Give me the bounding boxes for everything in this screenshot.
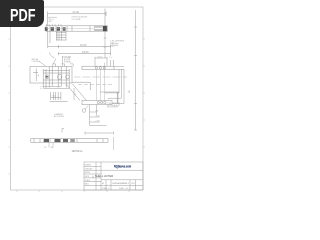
top overall dimension line — [48, 12, 107, 17]
bolt heads above bar — [47, 24, 62, 26]
svg-text:4 1/2: 4 1/2 — [98, 57, 103, 59]
svg-text:18.00: 18.00 — [82, 50, 89, 54]
top dimension extension left — [47, 16, 49, 27]
svg-text:SCREWS: SCREWS — [110, 45, 119, 47]
frame zone ticks right — [143, 39, 145, 147]
sheet frame — [11, 7, 144, 190]
note near badge — [48, 16, 57, 18]
svg-text:DWG02948JM-1: DWG02948JM-1 — [113, 183, 130, 185]
svg-text:1/2 C BORE: 1/2 C BORE — [72, 19, 81, 21]
arm center vertical — [103, 63, 105, 72]
left interior dim — [33, 69, 38, 82]
hole projection verticals — [96, 69, 104, 100]
plan view upper rectangle — [30, 67, 72, 84]
ladder extension from bar — [48, 31, 50, 46]
right hole extension below bar — [104, 31, 107, 58]
svg-text:15: 15 — [128, 91, 131, 94]
svg-text:15.00: 15.00 — [80, 43, 87, 47]
lower arm bar — [82, 101, 112, 105]
dims below bracket — [41, 86, 70, 88]
svg-text:DRAWN: DRAWN — [85, 164, 92, 167]
vertical dim in diagonal zone — [73, 88, 75, 100]
dim verticals below lower arm — [90, 105, 107, 126]
right nested dims — [105, 66, 124, 103]
overall vertical dimension — [134, 10, 137, 130]
svg-text:24.00: 24.00 — [73, 10, 80, 14]
svg-text:1 1/2: 1 1/2 — [96, 115, 100, 117]
bottom bar droplines — [49, 142, 53, 147]
stacked dimension ladder — [56, 32, 66, 41]
dark block 3 — [57, 27, 60, 31]
bracket horizontals — [43, 70, 69, 80]
bottom bar dark seg 3 — [63, 139, 68, 142]
svg-text:3/4: 3/4 — [51, 147, 53, 149]
svg-text:APPVD: APPVD — [85, 171, 91, 174]
svg-text:3 REQD: 3 REQD — [64, 61, 72, 63]
lower arm hole 1 — [97, 101, 99, 103]
step outline — [72, 82, 90, 90]
svg-text:SHEET 1 OF 1: SHEET 1 OF 1 — [119, 188, 130, 190]
leader arc lower-left — [50, 53, 55, 58]
diagonal edge 2 — [73, 84, 87, 101]
lower arm hole 2 — [100, 101, 102, 103]
frame zone ticks left — [9, 39, 11, 174]
svg-text:HD SCREWS: HD SCREWS — [107, 107, 119, 109]
svg-text:A3: A3 — [102, 182, 104, 185]
text: top dim value — [32, 10, 136, 190]
diagonal edge 1 — [66, 84, 80, 101]
right end gray section — [94, 26, 103, 31]
svg-text:2: 2 — [75, 94, 77, 96]
PDF badge — [0, 0, 44, 27]
bolt tabs above plan — [53, 64, 74, 67]
dark block 1 (nut section) — [45, 27, 48, 31]
small dim cluster below bracket — [50, 92, 68, 101]
arm top dimension — [95, 57, 114, 66]
verticals mid right — [116, 92, 119, 104]
dimension line 15.00 — [48, 45, 111, 48]
svg-text:5/8: 5/8 — [96, 110, 99, 112]
svg-text:SCALE: SCALE — [85, 179, 90, 182]
svg-text:1 1/2: 1 1/2 — [52, 95, 56, 97]
bottom bar dark seg 2 — [55, 139, 61, 142]
svg-text:SECTION A-A: SECTION A-A — [72, 149, 83, 153]
top view bar outline — [46, 26, 108, 31]
title block lower dividers — [101, 180, 143, 190]
svg-text:ALL EDGES: ALL EDGES — [54, 115, 65, 118]
dark block 4 — [63, 27, 66, 31]
frame zone ticks bottom — [17, 190, 129, 192]
top dimension extension right — [104, 9, 106, 27]
svg-text:1/2: 1/2 — [44, 147, 46, 149]
svg-text:DATE: DATE — [85, 175, 89, 178]
right extension for dims — [110, 45, 112, 55]
bottom bar dark seg 1 — [44, 139, 49, 142]
bracket circle 3 — [66, 75, 70, 79]
lower arm hole 3 — [104, 101, 106, 103]
bottom bar (section view) — [31, 139, 108, 143]
dashed hidden line — [78, 84, 112, 86]
title block outer — [84, 162, 143, 190]
bottom bar gray seg 4 — [70, 139, 75, 142]
arm hole 1 — [95, 67, 97, 69]
section arrow left — [62, 129, 64, 133]
arm hole 2 — [99, 67, 101, 69]
svg-text:REV: REV — [132, 183, 136, 185]
bar mid line — [46, 28, 94, 30]
bottom bar divisions — [34, 139, 103, 143]
right dim line — [100, 91, 119, 93]
right end dark block — [103, 26, 107, 31]
leader lines from notes — [39, 56, 62, 66]
bar internal divisions — [50, 26, 99, 31]
svg-text:NQSaves.com: NQSaves.com — [114, 164, 132, 168]
bracket dark dot — [46, 76, 48, 78]
arm hole 3 — [103, 67, 105, 69]
svg-text:△ SHELL LIFTER: △ SHELL LIFTER — [92, 174, 113, 178]
horizontal centerline — [74, 76, 127, 78]
svg-text:2 HOLES: 2 HOLES — [32, 61, 41, 63]
svg-text:3/4: 3/4 — [57, 39, 60, 41]
right extension bottom — [113, 137, 115, 150]
bracket verticals — [43, 67, 69, 89]
dimension line lower — [58, 52, 110, 55]
bottom dim line — [85, 132, 114, 135]
dark block 2 — [51, 27, 54, 31]
title block logo cell divider — [101, 169, 143, 171]
bracket circle 1 — [45, 75, 49, 79]
svg-text:1 1: 1 1 — [109, 57, 112, 59]
svg-text:MATL: MATL — [85, 183, 89, 186]
balloon marker — [82, 109, 86, 113]
svg-text:CHECKED: CHECKED — [85, 168, 94, 170]
svg-text:KEY: KEY — [49, 21, 54, 23]
bracket circle 2 — [57, 74, 62, 79]
svg-text:4: 4 — [38, 74, 40, 78]
top-right bar (plan arm) — [82, 66, 114, 69]
balloon leader — [85, 106, 88, 110]
svg-text:2 1/4: 2 1/4 — [96, 120, 100, 122]
title block left column rows — [84, 162, 101, 190]
